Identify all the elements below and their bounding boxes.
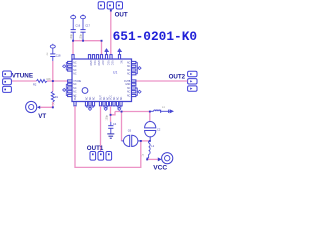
svg-text:C17: C17 xyxy=(85,24,90,28)
svg-text:C4: C4 xyxy=(113,122,117,126)
svg-text:L1: L1 xyxy=(162,106,165,109)
bottom NC bracket 1 xyxy=(87,106,94,107)
wire: top rail with bypass caps xyxy=(73,41,102,55)
connector J-OUT1 (3 pins, bottom) xyxy=(90,152,112,161)
resistor R1 vertical to VT xyxy=(51,92,54,103)
top pins xyxy=(72,55,121,59)
pin-1 marker circle xyxy=(82,88,88,94)
bottom NC bracket 2 xyxy=(104,106,108,107)
wire: OUT1 vertical xyxy=(100,106,102,151)
bottom NC bracket 3 xyxy=(118,106,122,107)
wire: R1 to VT corner xyxy=(38,102,52,107)
svg-text:NC: NC xyxy=(121,96,123,100)
svg-text:NC: NC xyxy=(127,88,131,90)
chip inside pin labels xyxy=(73,62,81,97)
svg-text:L2: L2 xyxy=(151,144,154,148)
svg-text:OUT: OUT xyxy=(75,95,77,100)
svg-text:R1: R1 xyxy=(55,95,59,99)
svg-text:NC: NC xyxy=(127,95,131,97)
resistor R2 on VTUNE line xyxy=(37,80,48,83)
right NC bracket top xyxy=(136,63,137,74)
power arrow on top pin xyxy=(105,49,109,55)
svg-text:.1u: .1u xyxy=(46,52,49,56)
junction dots xyxy=(52,40,151,161)
svg-text:NC: NC xyxy=(73,92,77,94)
inductor L2 (vertical, to VCC) xyxy=(147,141,150,160)
bottom pins xyxy=(74,102,122,106)
svg-text:OUT: OUT xyxy=(101,60,103,65)
wire: OUT2 xyxy=(136,80,188,82)
svg-text:NC: NC xyxy=(104,96,106,100)
svg-text:VCC: VCC xyxy=(110,95,112,100)
svg-text:651-0201-K0: 651-0201-K0 xyxy=(113,29,197,44)
svg-text:100p: 100p xyxy=(70,34,73,40)
right NC bracket bottom xyxy=(136,88,137,96)
wire: cap junction row xyxy=(141,140,150,142)
wire: bottom-left pin long return xyxy=(75,106,141,167)
svg-text:OUTB: OUTB xyxy=(124,81,131,83)
svg-text:OUT1: OUT1 xyxy=(87,145,104,152)
svg-text:NC: NC xyxy=(127,66,131,68)
svg-text:OUT2: OUT2 xyxy=(169,73,186,80)
wire: bypass pin down + step to rail xyxy=(111,106,116,115)
svg-text:NC: NC xyxy=(93,96,95,100)
ground xyxy=(107,134,114,138)
svg-text:C18: C18 xyxy=(56,53,61,57)
svg-text:GND: GND xyxy=(125,84,130,86)
svg-text:10K: 10K xyxy=(46,78,51,81)
svg-text:NC: NC xyxy=(86,96,88,100)
svg-text:NC: NC xyxy=(73,88,77,90)
wire: OUT vertical xyxy=(110,9,112,54)
svg-text:C6: C6 xyxy=(128,128,132,132)
svg-text:OUT: OUT xyxy=(115,12,128,19)
svg-text:NC: NC xyxy=(114,96,116,100)
svg-text:NC: NC xyxy=(127,92,131,94)
wire: bypass cap to ground xyxy=(110,115,112,122)
left pins xyxy=(68,61,72,96)
svg-text:NC: NC xyxy=(90,96,92,100)
wire: VCC2 rail xyxy=(115,111,150,113)
svg-text:NC: NC xyxy=(73,70,77,72)
svg-text:NC: NC xyxy=(117,96,119,100)
capacitor C16 xyxy=(71,14,76,18)
wire: cap branch down from VTUNE junction xyxy=(52,61,54,81)
wire: drop to coupling cap xyxy=(121,112,123,141)
capacitor C19 on VTUNE branch xyxy=(50,44,55,48)
capacitor C2 (DC block, vertical) xyxy=(149,112,151,123)
svg-text:VT: VT xyxy=(38,113,46,120)
ferrite bead L1 chain with arrow xyxy=(150,110,170,113)
svg-text:OUT: OUT xyxy=(100,95,102,100)
svg-text:VCC: VCC xyxy=(153,165,167,172)
connector J-OUT (3 pins, top) xyxy=(98,2,122,9)
svg-text:NC: NC xyxy=(127,70,131,72)
svg-text:NC: NC xyxy=(127,62,131,64)
connector J-OUT2 (3 pins, right) xyxy=(188,71,197,91)
svg-text:GND: GND xyxy=(97,60,99,65)
svg-text:VTUNE: VTUNE xyxy=(12,73,33,80)
connector J-VTUNE (3 pins, left) xyxy=(3,71,12,92)
left NC bracket top xyxy=(66,63,67,71)
right pins xyxy=(132,61,136,96)
left NC bracket bottom xyxy=(66,84,67,95)
svg-text:VCC: VCC xyxy=(111,60,113,65)
IC U1 body xyxy=(72,59,132,102)
svg-text:NC: NC xyxy=(73,74,77,76)
svg-text:U1: U1 xyxy=(113,71,117,75)
node VT: double-circle terminal xyxy=(26,101,37,112)
svg-text:NC: NC xyxy=(107,96,109,100)
wire: VTUNE horizontal from connector to chip xyxy=(12,80,37,82)
wire: junction to resistor R1 xyxy=(52,81,54,92)
wire: to VCC xyxy=(147,158,158,160)
node VCC terminal xyxy=(158,157,162,161)
svg-text:VTUNE: VTUNE xyxy=(73,81,81,83)
svg-text:C16: C16 xyxy=(75,24,80,28)
capacitor C6 (DC block, horizontal) xyxy=(122,135,141,146)
svg-text:GND: GND xyxy=(89,60,91,65)
svg-text:100p: 100p xyxy=(106,115,109,121)
svg-text:100p: 100p xyxy=(80,34,83,40)
svg-text:1u: 1u xyxy=(142,153,145,156)
svg-text:C2: C2 xyxy=(157,127,161,131)
svg-text:VCC: VCC xyxy=(93,60,95,65)
svg-text:NC: NC xyxy=(119,60,121,64)
svg-text:VCC: VCC xyxy=(106,60,108,65)
power arrow on top pin xyxy=(118,49,122,55)
svg-text:R2: R2 xyxy=(33,83,37,87)
capacitor C4 xyxy=(110,122,112,126)
capacitor C17 xyxy=(81,14,86,18)
svg-text:NC: NC xyxy=(73,62,77,64)
svg-text:NC: NC xyxy=(73,66,77,68)
svg-text:NC: NC xyxy=(73,84,77,86)
svg-text:NC: NC xyxy=(127,74,131,76)
